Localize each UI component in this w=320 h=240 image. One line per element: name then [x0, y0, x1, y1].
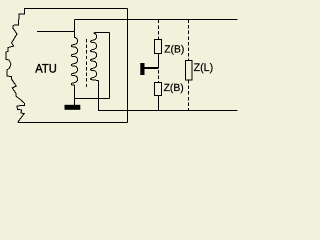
svg-text:Z(B): Z(B) — [164, 83, 184, 94]
svg-text:ATU: ATU — [35, 61, 57, 75]
svg-text:Z(L): Z(L) — [194, 62, 214, 74]
svg-text:Z(B): Z(B) — [164, 45, 184, 56]
